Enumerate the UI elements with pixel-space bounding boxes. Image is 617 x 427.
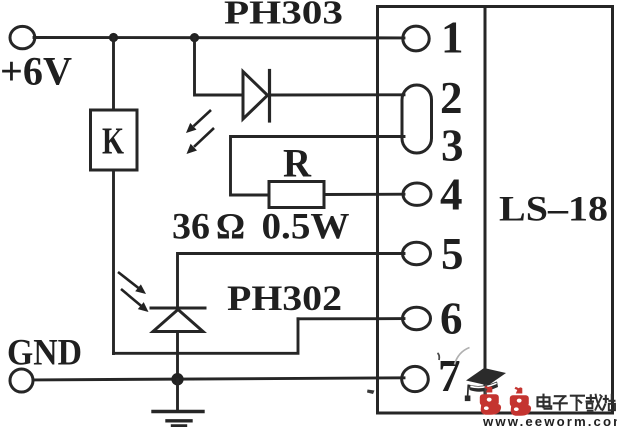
watermark character chong 2 (red) xyxy=(510,387,531,416)
pin 2-3 capsule xyxy=(402,85,432,153)
zai xyxy=(586,397,597,399)
pin 6 circle xyxy=(403,307,431,329)
svg-text:2: 2 xyxy=(440,73,463,123)
LED emission arrow 2 xyxy=(187,128,215,154)
watermark swoosh xyxy=(455,348,470,365)
wire photodiode anode to ground rail xyxy=(176,332,179,381)
pin 4 circle xyxy=(403,183,431,205)
relay coil K box xyxy=(91,110,138,170)
photodiode PH302 cathode bar xyxy=(151,307,205,310)
node junction K branch xyxy=(109,33,118,42)
watermark pencil xyxy=(484,385,487,412)
watermark text dianzi xiazaizhan xyxy=(538,394,616,411)
svg-text:GND: GND xyxy=(7,333,82,374)
svg-text:PH302: PH302 xyxy=(227,278,342,318)
pin 5 circle xyxy=(403,242,431,264)
zhan xyxy=(605,395,607,404)
svg-text:K: K xyxy=(102,121,124,163)
svg-text:6: 6 xyxy=(440,294,463,344)
svg-text:5: 5 xyxy=(441,229,464,279)
IC LS-18 box xyxy=(378,7,613,414)
wire K to bottom rail xyxy=(112,170,115,354)
photodiode incident arrow 1 xyxy=(118,272,146,294)
xia xyxy=(570,395,585,397)
wire junction to relay K xyxy=(112,38,115,111)
zi xyxy=(554,395,567,397)
scan speckle blob xyxy=(367,390,375,395)
svg-text:PH303: PH303 xyxy=(224,0,343,32)
scan speckle tick xyxy=(438,353,440,360)
node junction ground xyxy=(171,373,183,385)
wire GND rail to pin 7 xyxy=(34,378,405,380)
wire step to pin 6 xyxy=(298,317,404,320)
wire pin 3 left and down to resistor xyxy=(231,137,405,196)
wire LED cathode to pin 2 xyxy=(270,93,405,96)
svg-text:R: R xyxy=(283,141,312,186)
svg-text:www.eeworm.com: www.eeworm.com xyxy=(482,414,617,427)
LED emission arrow 1 xyxy=(186,110,211,133)
svg-text:4: 4 xyxy=(440,170,463,220)
terminal +6V xyxy=(10,26,35,48)
svg-text:LS–18: LS–18 xyxy=(499,189,608,229)
svg-text:36Ω0.5W: 36Ω0.5W xyxy=(172,207,350,248)
dian xyxy=(538,397,550,406)
photodiode PH302 triangle xyxy=(153,310,203,332)
svg-text:3: 3 xyxy=(441,121,464,171)
node junction LED branch xyxy=(190,33,199,42)
LED PH303 diode triangle xyxy=(243,72,268,120)
wire pin 5 to photodiode cathode xyxy=(178,254,405,307)
terminal GND xyxy=(10,369,33,392)
wire junction to LED anode xyxy=(195,38,244,95)
wire bottom rail and step up to pin 6 line xyxy=(114,319,299,354)
photodiode incident arrow 2 xyxy=(121,289,149,312)
wire resistor to pin 4 xyxy=(324,193,404,196)
watermark character chong 1 (red) xyxy=(480,386,501,415)
pin 1 circle xyxy=(403,26,429,51)
wire +6V rail to pin 1 xyxy=(34,36,404,39)
resistor R body xyxy=(269,182,324,208)
svg-text:1: 1 xyxy=(441,13,464,63)
ground symbol xyxy=(153,412,203,426)
watermark graduation cap xyxy=(465,368,506,401)
pin 7 circle xyxy=(402,366,429,391)
IC inner divider line xyxy=(484,7,487,414)
svg-text:+6V: +6V xyxy=(0,49,72,94)
LED PH303 cathode bar xyxy=(268,71,271,122)
wire junction down to ground symbol xyxy=(176,380,179,411)
